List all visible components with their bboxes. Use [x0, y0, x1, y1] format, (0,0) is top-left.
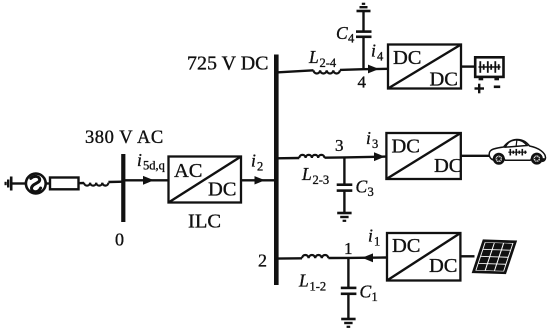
inductor L1-2 [302, 255, 328, 258]
impedance resistor Z [50, 178, 79, 190]
svg-text:3: 3 [335, 136, 344, 155]
arrow i1 (pointing left) [362, 253, 373, 262]
inductor L2-3 [299, 155, 324, 158]
svg-text:1: 1 [374, 235, 380, 249]
svg-text:DC: DC [430, 69, 458, 91]
wire U4 to battery [461, 65, 475, 67]
svg-text:L: L [298, 271, 309, 291]
converter U1 (DC/DC bottom) [387, 233, 460, 281]
battery storage icon [475, 57, 503, 80]
label - (battery) [494, 86, 500, 89]
svg-text:C: C [356, 177, 368, 197]
svg-text:4: 4 [358, 73, 367, 92]
svg-text:C: C [360, 282, 372, 302]
svg-text:1: 1 [344, 239, 353, 258]
svg-text:1-2: 1-2 [310, 280, 327, 294]
wire bus0 to ILC [123, 179, 168, 181]
converter U4 (DC/DC top) [388, 45, 461, 89]
svg-text:4: 4 [348, 32, 355, 46]
svg-text:380 V AC: 380 V AC [85, 128, 164, 148]
label + (battery) [475, 84, 485, 94]
svg-text:3: 3 [372, 137, 378, 151]
bus 0 (380 V AC bus) [121, 154, 125, 222]
converter U3 (DC/DC middle) [386, 133, 460, 179]
wire inductor to AC bus [108, 180, 123, 183]
svg-text:2: 2 [257, 160, 263, 174]
node 1 to capacitor C1 [347, 258, 349, 288]
svg-text:1: 1 [372, 290, 378, 304]
wire ground to AC source [11, 182, 26, 184]
svg-text:L: L [308, 47, 319, 67]
ground (below C1) [341, 319, 355, 327]
inductor L2-4 [314, 70, 340, 73]
svg-text:4: 4 [377, 50, 384, 64]
wire C3 to ground [343, 191, 345, 213]
wire U1 to PV panel [460, 255, 474, 257]
svg-text:C: C [336, 23, 348, 43]
arrow i4 [368, 65, 379, 74]
wire L1-2 to node 1 and converter [328, 256, 387, 259]
svg-text:ILC: ILC [188, 211, 221, 233]
bus 2 (725 V DC bus) [274, 55, 279, 286]
converter ILC (AC/DC) [169, 157, 242, 203]
svg-text:5d,q: 5d,q [143, 159, 166, 173]
wire bus2 to L2-3 [276, 157, 299, 160]
svg-text:2-3: 2-3 [313, 173, 330, 187]
svg-text:0: 0 [115, 230, 124, 250]
wire bus2 to L1-2 [276, 257, 302, 260]
svg-text:i: i [371, 41, 376, 61]
svg-text:DC: DC [208, 179, 236, 201]
AC source G1 [26, 174, 46, 194]
svg-text:AC: AC [174, 160, 202, 182]
svg-text:2: 2 [258, 251, 267, 271]
node 4 to capacitor C4 [362, 37, 364, 69]
svg-text:3: 3 [368, 185, 374, 199]
svg-text:2-4: 2-4 [320, 56, 337, 70]
wire U3 to EV [461, 155, 490, 157]
wire ILC to DC bus [241, 179, 274, 181]
wire C1 to ground [347, 294, 349, 319]
svg-text:DC: DC [429, 255, 457, 277]
svg-text:DC: DC [393, 47, 421, 69]
wire L2-3 to node 3 and converter [325, 157, 387, 158]
EV window [505, 140, 527, 147]
arrow i3 [374, 152, 385, 161]
wire AC source to impedance [45, 182, 50, 184]
EV wheel arches [493, 156, 505, 161]
EV wheels [493, 153, 543, 165]
ground (left of AC source, rotated) [6, 177, 12, 191]
EV car icon [489, 139, 545, 164]
wire L2-4 to node 4 and converter [340, 69, 388, 70]
svg-text:i: i [368, 226, 373, 246]
wire bus2 to L2-4 [276, 70, 313, 72]
node 3 to capacitor C3 [343, 157, 345, 184]
arrow i2 [255, 176, 266, 184]
arrow i5d,q [143, 176, 154, 185]
svg-text:i: i [366, 128, 371, 148]
PV solar panel icon [474, 241, 516, 273]
line inductor (source) [84, 183, 108, 186]
ground (below C3) [337, 213, 351, 221]
EV battery mark [508, 149, 527, 156]
capacitor C4 [356, 32, 372, 37]
svg-text:i: i [137, 150, 142, 170]
svg-text:L: L [301, 164, 312, 184]
wire C4 to top ground [362, 12, 364, 32]
svg-text:i: i [251, 151, 256, 171]
wire impedance to line inductor [79, 182, 85, 185]
svg-text:DC: DC [434, 155, 462, 177]
svg-text:725 V DC: 725 V DC [187, 53, 269, 75]
svg-text:DC: DC [392, 136, 420, 158]
capacitor C1 [341, 288, 357, 294]
ground (top, inverted) [357, 4, 371, 11]
capacitor C3 [337, 185, 353, 191]
svg-text:DC: DC [392, 235, 420, 257]
